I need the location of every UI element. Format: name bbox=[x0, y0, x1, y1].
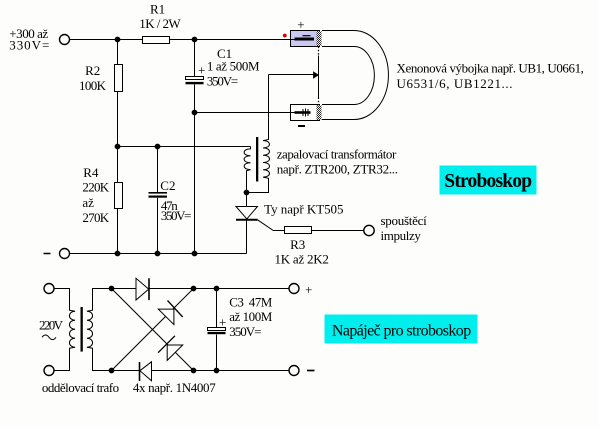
terminal: DC+ output bbox=[289, 284, 299, 294]
svg-text:270K: 270K bbox=[82, 210, 109, 225]
diode D4 (bottom rail) bbox=[140, 362, 152, 381]
wire DC bottom rail bbox=[112, 370, 290, 372]
svg-text:+: + bbox=[219, 315, 226, 330]
node: C1 tap on top rail bbox=[192, 37, 198, 43]
trigger transformer primary winding bbox=[244, 147, 250, 193]
node: R4 on bottom rail bbox=[115, 251, 121, 257]
mains transformer core bbox=[81, 307, 83, 352]
svg-text:1K až 2K2: 1K až 2K2 bbox=[275, 252, 329, 267]
svg-text:R4: R4 bbox=[83, 165, 99, 180]
svg-text:impulzy: impulzy bbox=[381, 228, 422, 243]
mains transformer secondary winding bbox=[87, 289, 112, 371]
tube glass hatch bottom bbox=[317, 105, 322, 120]
svg-text:350V=: 350V= bbox=[161, 208, 192, 223]
wire R4 upper lead bbox=[117, 147, 119, 183]
wire trigger electrode bbox=[269, 74, 314, 76]
wire bridge diagonal A bbox=[112, 289, 194, 371]
node: C3 bottom bbox=[214, 368, 220, 374]
tube glass hatch top bbox=[317, 31, 322, 46]
node: C2 on bottom rail bbox=[155, 251, 161, 257]
node: C2 tap on mid rail bbox=[155, 144, 161, 150]
label - (tube cathode) bbox=[298, 125, 305, 127]
wire R4 lower lead bbox=[117, 209, 119, 254]
trigger transformer secondary winding bbox=[247, 75, 270, 193]
node: R4 tap on mid rail bbox=[115, 144, 121, 150]
svg-text:C3 47M: C3 47M bbox=[229, 295, 273, 310]
wire gate to trigger terminal bbox=[312, 230, 364, 232]
node: R2 tap on top rail bbox=[115, 37, 121, 43]
svg-text:oddělovací trafo: oddělovací trafo bbox=[42, 380, 119, 395]
wire thyristor cathode lead bbox=[246, 220, 248, 254]
xenon tube anode electrode box bbox=[291, 31, 320, 47]
wire DC top rail bbox=[112, 288, 290, 290]
svg-text:+: + bbox=[305, 282, 312, 297]
mains transformer primary winding bbox=[54, 289, 75, 371]
svg-text:+: + bbox=[198, 63, 205, 78]
terminal: DC- output bbox=[289, 366, 299, 376]
svg-text:R3: R3 bbox=[290, 237, 305, 252]
label - (bottom rail) bbox=[44, 253, 51, 255]
svg-text:Stroboskop: Stroboskop bbox=[444, 171, 532, 192]
node: tube cathode feed junction bbox=[192, 110, 198, 116]
node: C1 on bottom rail bbox=[192, 251, 198, 257]
label +300 až 330V= bbox=[9, 26, 49, 53]
terminal: trigger input bbox=[364, 225, 374, 235]
wire top rail left bbox=[70, 39, 143, 41]
svg-text:Xenonová výbojka např. UB1, U0: Xenonová výbojka např. UB1, U0661, bbox=[397, 61, 584, 76]
node: bridge AC bottom bbox=[109, 368, 115, 374]
wire R2 upper lead bbox=[117, 40, 119, 65]
label trigger transformer bbox=[277, 147, 398, 177]
terminal: mains N bbox=[44, 366, 54, 376]
wire C3 upper lead bbox=[216, 289, 218, 328]
wire thyristor anode lead bbox=[246, 193, 248, 207]
wire thyristor gate lead bbox=[258, 220, 285, 231]
svg-text:např. ZTR200, ZTR32...: např. ZTR200, ZTR32... bbox=[277, 162, 398, 177]
svg-text:100K: 100K bbox=[79, 78, 107, 93]
wire C3 lower lead bbox=[216, 335, 218, 371]
xenon tube inner glass arc bbox=[322, 47, 374, 105]
svg-text:350V=: 350V= bbox=[229, 324, 261, 339]
node: thyristor anode junction bbox=[244, 190, 250, 196]
svg-text:až: až bbox=[82, 195, 94, 210]
trigger transformer core bbox=[256, 137, 258, 182]
node: C3 top bbox=[214, 286, 220, 292]
label ~ (AC) bbox=[42, 335, 56, 340]
svg-text:+: + bbox=[297, 17, 304, 32]
label - output bbox=[307, 370, 315, 372]
wire R2 lower lead bbox=[117, 92, 119, 147]
svg-text:zapalovací transformátor: zapalovací transformátor bbox=[277, 147, 397, 162]
wire bridge diagonal B bbox=[112, 289, 194, 371]
svg-text:Napáječ pro stroboskop: Napáječ pro stroboskop bbox=[332, 322, 471, 339]
svg-text:Ty např KT505: Ty např KT505 bbox=[264, 202, 343, 217]
node: bridge DC- bbox=[191, 368, 197, 374]
capacitor C2 bbox=[149, 178, 192, 223]
wire anode entry inside box bbox=[291, 39, 297, 41]
resistor R4 bbox=[82, 165, 122, 225]
label Napáječ pro stroboskop bbox=[325, 315, 478, 344]
capacitor C3 (electrolytic) bbox=[208, 295, 273, 339]
wire C1 upper lead bbox=[194, 40, 196, 77]
svg-text:330V=: 330V= bbox=[9, 38, 49, 53]
wire C2 lower lead bbox=[157, 198, 159, 254]
xenon tube outer glass arc bbox=[322, 31, 388, 120]
label xenon tube bbox=[397, 61, 584, 92]
terminal: +300V input bbox=[60, 35, 70, 45]
label trigger input bbox=[381, 213, 428, 243]
svg-text:až 100M: až 100M bbox=[229, 309, 273, 324]
wire mid rail bbox=[118, 146, 251, 148]
thyristor Ty bbox=[236, 202, 344, 220]
wire cathode entry inside box bbox=[291, 112, 296, 114]
terminal: mains L bbox=[44, 284, 54, 294]
svg-text:4x např. 1N4007: 4x např. 1N4007 bbox=[133, 380, 216, 395]
capacitor C1 (electrolytic) bbox=[186, 46, 260, 88]
svg-text:spouštěcí: spouštěcí bbox=[381, 213, 428, 228]
wire C1 lower lead down to bottom rail bbox=[194, 85, 196, 254]
wire C2 upper lead bbox=[157, 147, 159, 193]
svg-text:220V: 220V bbox=[39, 318, 64, 333]
svg-text:C2: C2 bbox=[160, 178, 175, 193]
svg-text:1 až 500M: 1 až 500M bbox=[207, 59, 260, 74]
red polarity dot bbox=[283, 34, 287, 38]
diode D1 (top rail) bbox=[136, 278, 149, 300]
resistor R3 bbox=[275, 227, 329, 267]
resistor R2 bbox=[79, 63, 123, 93]
wire top rail right of R1 bbox=[170, 39, 291, 41]
diode D2 (diagonal B) bbox=[158, 301, 182, 325]
node: bridge DC+ bbox=[191, 286, 197, 292]
resistor R1 bbox=[139, 2, 181, 44]
wire to flash tube lower electrode bbox=[195, 112, 291, 114]
tube inner-left wall (dotted through hatches) bbox=[318, 47, 320, 105]
svg-text:R2: R2 bbox=[85, 63, 100, 78]
svg-text:220K: 220K bbox=[82, 180, 109, 195]
label Stroboskop bbox=[440, 166, 537, 195]
svg-text:1K / 2W: 1K / 2W bbox=[139, 16, 181, 31]
diode D3 (diagonal A) bbox=[158, 336, 183, 361]
svg-text:R1: R1 bbox=[150, 2, 165, 17]
xenon tube cathode electrode box bbox=[291, 105, 320, 121]
terminal: 0V input bbox=[60, 249, 70, 259]
wire bottom rail bbox=[70, 253, 247, 255]
node: bridge AC top bbox=[109, 286, 115, 292]
trigger arrow on tube bbox=[313, 71, 319, 78]
svg-text:U6531/6, UB1221...: U6531/6, UB1221... bbox=[397, 76, 513, 91]
svg-text:350V=: 350V= bbox=[207, 74, 238, 89]
